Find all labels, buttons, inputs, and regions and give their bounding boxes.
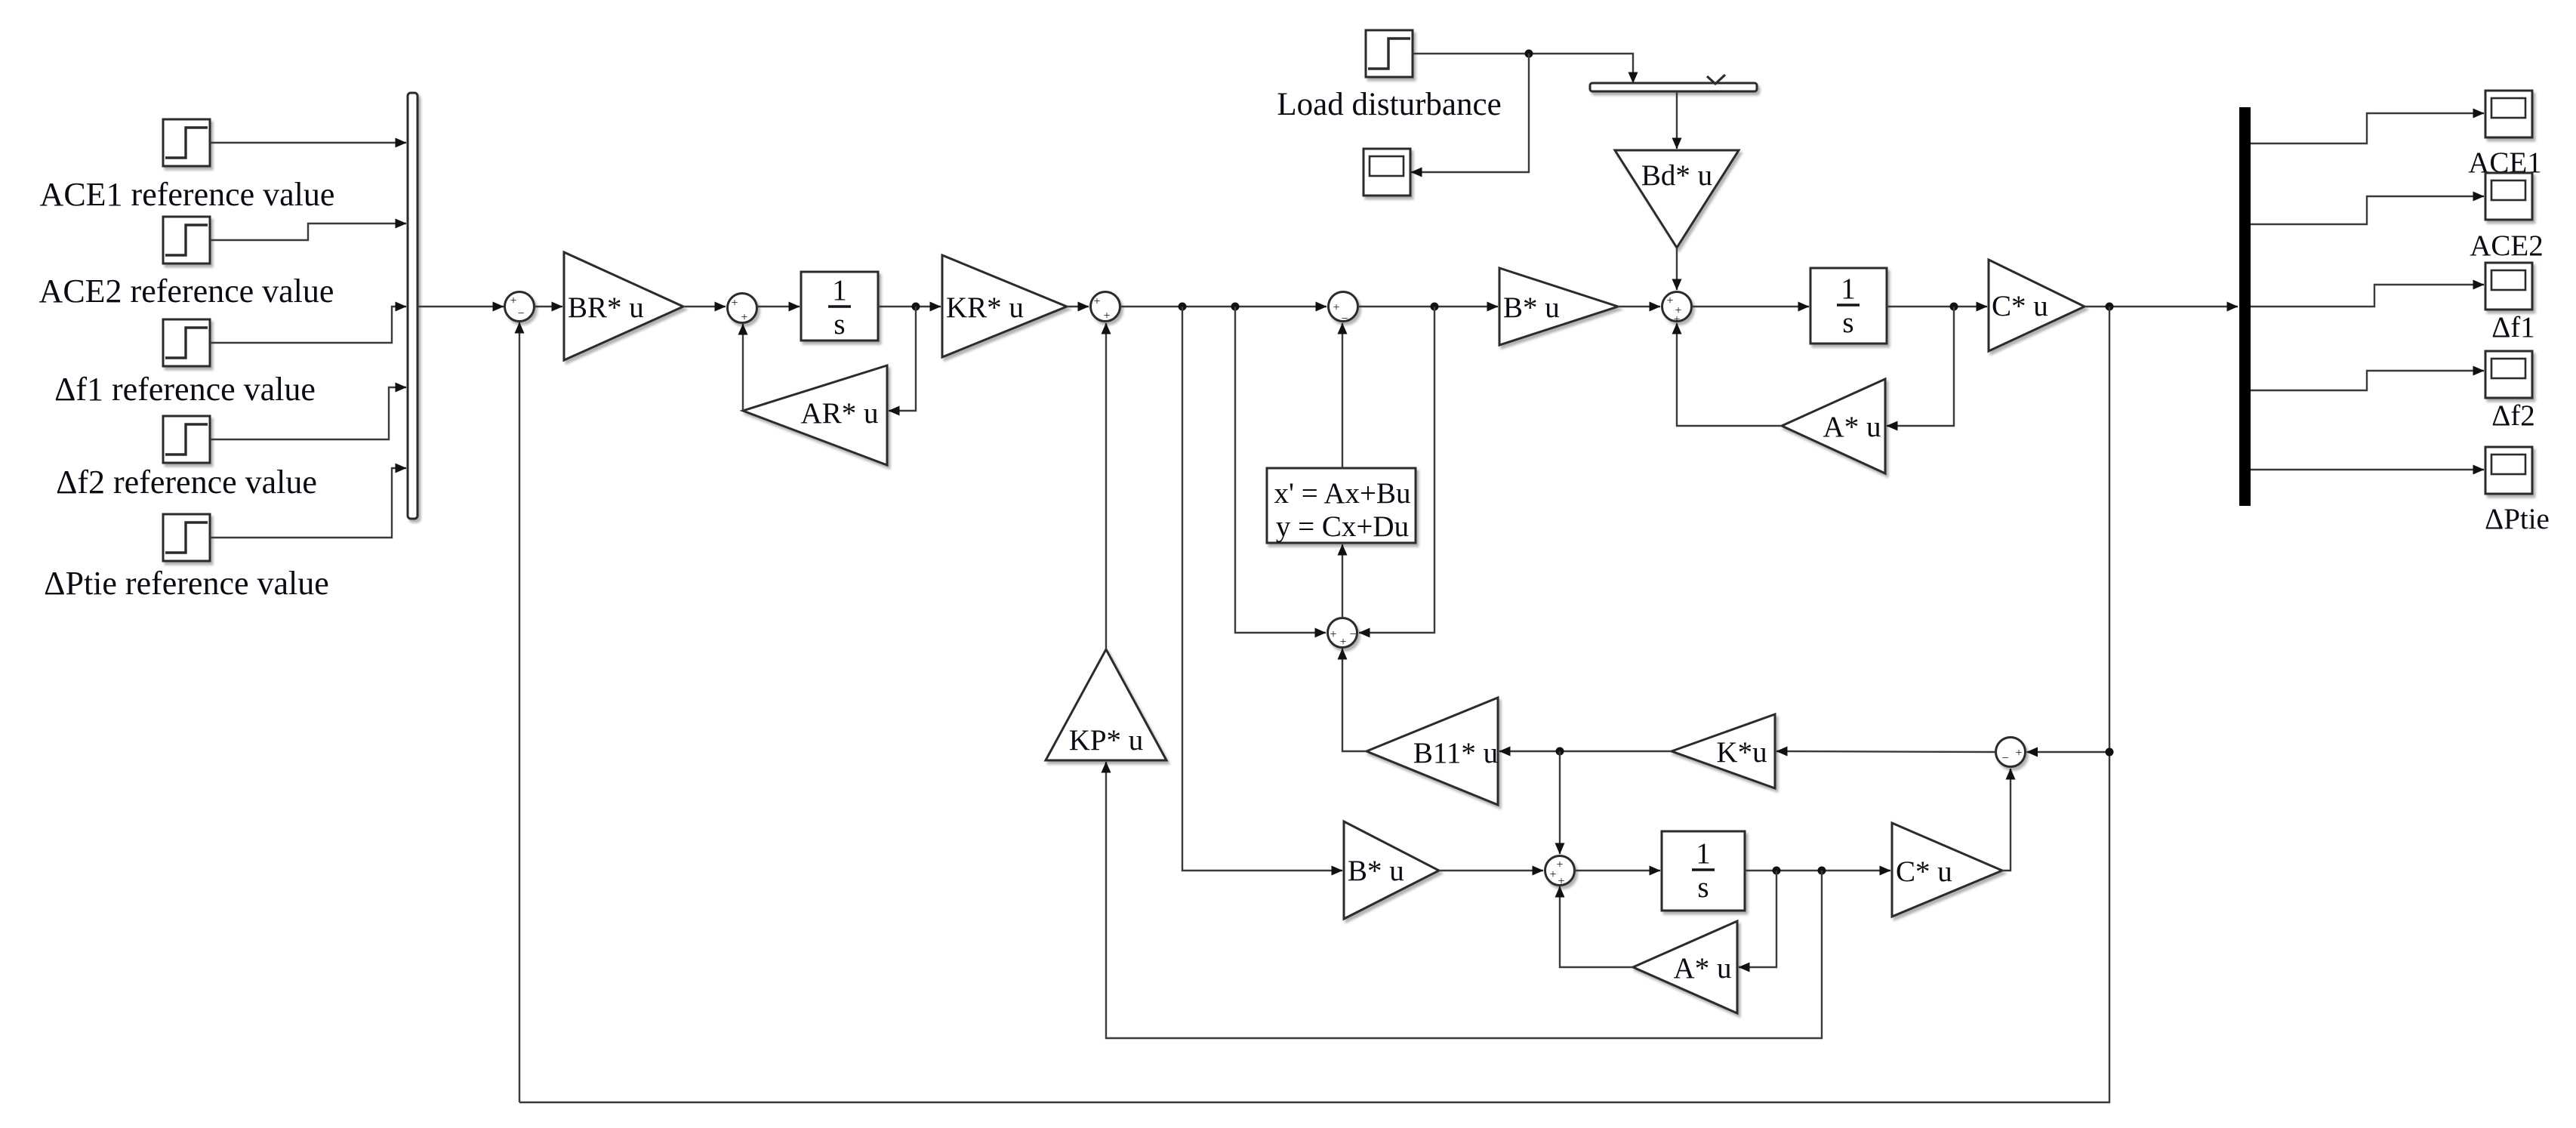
svg-text:+: + bbox=[2015, 747, 2022, 760]
svg-text:ACE1 reference value: ACE1 reference value bbox=[40, 176, 335, 213]
svg-text:+: + bbox=[510, 294, 516, 307]
step source ACE1 reference bbox=[163, 119, 210, 166]
svg-text:+: + bbox=[1556, 858, 1563, 871]
gain C*u (lower) bbox=[1892, 823, 2002, 917]
gain Bd*u (down pointing) bbox=[1615, 150, 1739, 248]
svg-text:+: + bbox=[741, 311, 747, 324]
gain KR*u bbox=[942, 255, 1067, 357]
wire node F to scope0 bbox=[1411, 54, 1529, 172]
svg-text:+: + bbox=[1333, 301, 1339, 314]
wire C to demux bbox=[2085, 306, 2238, 307]
gain BR*u bbox=[564, 252, 683, 360]
scope DPtie bbox=[2485, 447, 2532, 494]
wire S8 to K gain bbox=[1776, 751, 1996, 752]
wire node A to lower B gain bbox=[1182, 307, 1342, 871]
svg-text:1: 1 bbox=[832, 274, 847, 307]
summing junction S7 bbox=[1545, 856, 1575, 889]
node C (to S6 right) bbox=[1431, 303, 1439, 311]
svg-text:s: s bbox=[1842, 307, 1853, 339]
wire A gain to S4 bottom bbox=[1677, 323, 1782, 426]
svg-text:A* u: A* u bbox=[1674, 952, 1732, 985]
summing junction S3 bbox=[1091, 292, 1120, 323]
wire S6 to state-space input bbox=[1342, 544, 1343, 618]
step source Df1 reference bbox=[163, 319, 210, 366]
svg-text:s: s bbox=[1697, 871, 1709, 904]
gain A*u (upper, left pointing) bbox=[1782, 379, 1885, 473]
wire demux to scope DPtie bbox=[2251, 469, 2484, 470]
svg-text:ΔPtie reference value: ΔPtie reference value bbox=[44, 565, 329, 602]
gain C*u (upper) bbox=[1989, 260, 2085, 351]
wire Bd to S4 top bbox=[1676, 248, 1678, 290]
svg-text:−: − bbox=[517, 307, 524, 320]
global feedback wire from node E to S1 bbox=[519, 307, 2109, 1102]
wire step4 to mux bbox=[210, 387, 406, 439]
node J on K output bbox=[1556, 747, 1564, 756]
svg-text:B* u: B* u bbox=[1348, 855, 1404, 887]
wire load step to switch bbox=[1413, 54, 1633, 83]
svg-text:1: 1 bbox=[1841, 273, 1856, 305]
svg-text:Δf2 reference value: Δf2 reference value bbox=[56, 464, 317, 501]
manual switch bar bbox=[1590, 83, 1757, 91]
wire A lower to S7 bottom bbox=[1560, 886, 1633, 967]
svg-text:Bd* u: Bd* u bbox=[1641, 159, 1712, 192]
wire integrator1 to KR gain bbox=[878, 306, 941, 307]
wire step1 to mux bbox=[210, 142, 406, 143]
wire A gain feedback from node D bbox=[1887, 307, 1954, 426]
demux bar bbox=[2239, 107, 2251, 506]
svg-text:ΔPtie: ΔPtie bbox=[2485, 503, 2550, 535]
wire C lower to S8 bottom bbox=[2002, 769, 2011, 871]
wire integrator3 to C lower gain bbox=[1745, 870, 1890, 871]
integrator 1/s (3) bbox=[1662, 831, 1745, 911]
svg-text:+: + bbox=[1558, 875, 1564, 888]
integrator 1/s (2) bbox=[1810, 268, 1887, 344]
svg-text:Δf1: Δf1 bbox=[2491, 311, 2535, 344]
svg-text:x' = Ax+Bu: x' = Ax+Bu bbox=[1274, 477, 1410, 510]
wire S7 to integrator 3 bbox=[1575, 870, 1661, 871]
summing junction S4 bbox=[1662, 292, 1692, 327]
wire S5 to B gain bbox=[1358, 306, 1499, 307]
svg-text:Δf2: Δf2 bbox=[2491, 399, 2535, 432]
gain B11*u (left pointing) bbox=[1367, 698, 1498, 805]
svg-text:A* u: A* u bbox=[1823, 411, 1881, 443]
switch lever glyph bbox=[1707, 75, 1725, 84]
svg-text:Load disturbance: Load disturbance bbox=[1277, 87, 1501, 122]
scope Df1 bbox=[2485, 263, 2532, 310]
svg-text:1: 1 bbox=[1696, 837, 1711, 870]
wire integrator2 to C gain bbox=[1887, 306, 1987, 307]
wire KR to sum S3 bbox=[1067, 306, 1089, 307]
summing junction S6 bbox=[1328, 618, 1357, 649]
wire node to AR gain bbox=[889, 307, 916, 411]
wire B11 to S6 bottom bbox=[1342, 649, 1367, 751]
wire node J to S7 top bbox=[1559, 751, 1561, 854]
wire switch to Bd gain bbox=[1676, 91, 1678, 149]
step source ACE2 reference bbox=[163, 217, 210, 264]
svg-text:Δf1 reference value: Δf1 reference value bbox=[54, 371, 316, 408]
svg-text:+: + bbox=[1666, 294, 1673, 307]
wire node G to A lower gain bbox=[1739, 871, 1776, 967]
gain B*u (upper) bbox=[1499, 268, 1618, 345]
wire demux to scope Df1 bbox=[2251, 285, 2484, 307]
svg-text:KR* u: KR* u bbox=[946, 291, 1024, 324]
svg-text:+: + bbox=[1339, 636, 1346, 649]
svg-text:B* u: B* u bbox=[1503, 291, 1560, 324]
svg-text:BR* u: BR* u bbox=[568, 291, 644, 324]
node E output bbox=[2106, 303, 2114, 311]
summing junction S2 bbox=[728, 294, 757, 325]
gain KP*u (up pointing) bbox=[1046, 649, 1166, 760]
svg-text:+: + bbox=[1093, 295, 1100, 308]
wire B to sum S4 bbox=[1618, 306, 1660, 307]
wire BR to sum S2 bbox=[683, 306, 726, 307]
node I on global feedback bbox=[2106, 748, 2114, 757]
wire feedback into S1 bottom bbox=[519, 322, 520, 1102]
svg-text:s: s bbox=[834, 308, 845, 341]
node D after integrator2 bbox=[1950, 303, 1958, 311]
wire S2 to integrator 1 bbox=[757, 306, 800, 307]
svg-text:y = Cx+Du: y = Cx+Du bbox=[1276, 510, 1409, 543]
gain AR*u (left pointing) bbox=[743, 365, 887, 465]
node G after integrator3 bbox=[1773, 867, 1781, 875]
wire node C to S6 right bbox=[1359, 307, 1434, 633]
integrator 1/s (1) bbox=[801, 272, 878, 341]
wire S1 to BR gain bbox=[535, 306, 563, 307]
wire demux to scope Df2 bbox=[2251, 371, 2484, 390]
state-space block bbox=[1267, 468, 1416, 543]
svg-text:KP* u: KP* u bbox=[1069, 724, 1144, 757]
svg-text:+: + bbox=[1549, 868, 1556, 881]
wire KP to S3 bottom bbox=[1105, 323, 1107, 649]
wire K to B11 gain bbox=[1499, 750, 1672, 752]
wire step3 to mux bbox=[210, 307, 406, 343]
wire node B to S6 left bbox=[1235, 307, 1326, 633]
wire B lower to S7 bbox=[1439, 870, 1543, 871]
wire step2 to mux bbox=[210, 223, 406, 240]
scope ACE2 bbox=[2485, 173, 2532, 220]
wire demux to scope ACE2 bbox=[2251, 196, 2484, 224]
node F load split bbox=[1525, 50, 1533, 58]
node after integrator1 bbox=[912, 303, 920, 311]
svg-text:B11* u: B11* u bbox=[1413, 737, 1498, 769]
gain A*u (lower, left pointing) bbox=[1633, 921, 1737, 1013]
wire step5 to mux bbox=[210, 468, 406, 538]
step source DPtie reference bbox=[163, 514, 210, 561]
wire mux to sum1 bbox=[418, 306, 504, 307]
node B (to S6 left) bbox=[1231, 303, 1240, 311]
svg-text:C* u: C* u bbox=[1992, 290, 2048, 322]
svg-text:AR* u: AR* u bbox=[801, 397, 879, 430]
svg-text:+: + bbox=[1103, 310, 1110, 322]
wire S3 to sum S5 bbox=[1120, 306, 1327, 307]
svg-text:ACE2: ACE2 bbox=[2470, 230, 2544, 262]
step source Load disturbance bbox=[1366, 30, 1413, 77]
wire AR to S2 bottom bbox=[742, 324, 744, 411]
node H after integrator3 bbox=[1818, 867, 1826, 875]
mux bar bbox=[408, 93, 418, 519]
wire state-space output to S5 bottom bbox=[1342, 323, 1343, 468]
summing junction S5 bbox=[1329, 292, 1358, 326]
wire demux to scope ACE1 bbox=[2251, 113, 2484, 143]
svg-text:+: + bbox=[731, 297, 738, 310]
gain K*u (left pointing) bbox=[1672, 714, 1775, 788]
scope block (load) bbox=[1363, 149, 1410, 196]
svg-text:−: − bbox=[2001, 752, 2008, 765]
node A (to lower B gain) bbox=[1179, 303, 1187, 311]
summing junction S1 bbox=[505, 292, 535, 322]
scope Df2 bbox=[2485, 351, 2532, 398]
svg-text:ACE2 reference value: ACE2 reference value bbox=[39, 273, 334, 310]
svg-text:C* u: C* u bbox=[1896, 855, 1952, 888]
svg-text:K*u: K*u bbox=[1716, 736, 1767, 769]
summing junction S8 bbox=[1996, 738, 2026, 767]
wire big vertical to S8 right bbox=[2027, 751, 2110, 753]
svg-text:+: + bbox=[1330, 628, 1336, 641]
scope ACE1 bbox=[2485, 91, 2532, 137]
wire node H to KP input (feedback) bbox=[1106, 762, 1822, 1038]
step source Df2 reference bbox=[163, 416, 210, 463]
wire S4 to integrator 2 bbox=[1692, 306, 1810, 307]
svg-text:−: − bbox=[1349, 628, 1356, 641]
gain B*u (lower) bbox=[1344, 821, 1439, 919]
